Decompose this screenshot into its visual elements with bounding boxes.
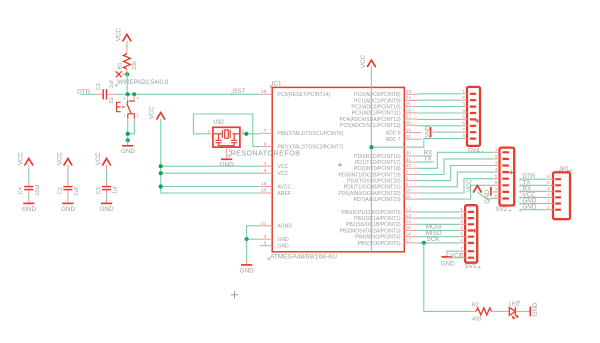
svg-text:PB7(XTAL2/TOSC2/PCINT7): PB7(XTAL2/TOSC2/PCINT7) xyxy=(277,145,343,151)
svg-text:28: 28 xyxy=(406,120,412,126)
svg-text:VCC: VCC xyxy=(18,152,25,166)
IC pin 7 stub (PB6(XTAL1/TOSC1/PCINT6)) xyxy=(260,132,272,134)
capacitor C2 1uf xyxy=(57,187,80,196)
svg-text:PC5(ADC5/SCL/PCINT13): PC5(ADC5/SCL/PCINT13) xyxy=(340,123,401,129)
switch S1 (reset pushbutton) xyxy=(109,95,140,121)
junction VCC rail / SV4 pin 8 branch xyxy=(369,145,373,149)
wire JP1 GND xyxy=(521,203,547,205)
SV1 pin 4 stub xyxy=(459,230,465,232)
SV2 pin 5 stub xyxy=(494,178,500,180)
svg-text:GND: GND xyxy=(100,206,114,213)
IC pin 13 stub (PB1(OC1A/PCINT1)) xyxy=(404,217,417,219)
svg-text:3: 3 xyxy=(123,95,126,100)
svg-text:ADC 6: ADC 6 xyxy=(386,131,401,137)
pin stub C2 pin 1 xyxy=(67,181,69,186)
svg-text:VCC: VCC xyxy=(149,106,156,120)
ground GND under C4 xyxy=(22,198,36,212)
junction VCC rail pin6 xyxy=(159,171,163,175)
JP1 pin 6 stub xyxy=(547,178,553,180)
SV1 pin 6 stub xyxy=(459,242,465,244)
wire to IC AVCC pin 18 xyxy=(161,186,260,188)
wire PDx to SV2 xyxy=(417,152,493,168)
svg-text:AGND: AGND xyxy=(277,224,292,230)
IC pin 1 stub (PD3(INT1/OC2B/PCINT19)) xyxy=(404,174,417,176)
svg-text:RST: RST xyxy=(233,88,246,95)
JP1 pin 5 stub xyxy=(547,184,553,186)
svg-text:10uf: 10uf xyxy=(35,184,41,195)
wire LED to GND xyxy=(519,310,525,312)
wire PCx to SV4 xyxy=(417,99,461,101)
wire diagonal VCC to SV2 pin 8 net xyxy=(477,192,490,200)
wire VCC to C4 xyxy=(28,169,30,181)
svg-text:PB6(XTAL1/TOSC1/PCINT6): PB6(XTAL1/TOSC1/PCINT6) xyxy=(277,131,343,137)
IC pin 16 stub (PB4(MISO/PCINT4)) xyxy=(404,236,417,238)
junction resonator XTAL1 xyxy=(244,132,248,136)
wire to IC VCC pin 6 xyxy=(161,172,260,174)
SV4 pin 8 stub xyxy=(461,138,467,140)
pin stub C3 pin 1 xyxy=(106,181,108,186)
svg-text:C1: C1 xyxy=(96,83,102,90)
svg-text:PB2(SS/OC1B/PCINT2): PB2(SS/OC1B/PCINT2) xyxy=(346,222,401,228)
IC pin 19 stub (ADC 6) xyxy=(404,132,421,134)
pin stub C1 pin 1 xyxy=(95,93,103,95)
svg-text:JP1: JP1 xyxy=(559,166,570,173)
svg-text:PD7(AIN1/PCINT23): PD7(AIN1/PCINT23) xyxy=(354,197,401,203)
svg-text:GND: GND xyxy=(277,244,289,250)
label origin cross SV1 xyxy=(478,266,481,269)
SV2 pin 3 stub xyxy=(494,165,500,167)
LED LED1 xyxy=(506,302,520,319)
svg-text:11: 11 xyxy=(406,194,411,200)
svg-text:GND: GND xyxy=(522,204,536,211)
label origin cross DTR xyxy=(519,178,522,181)
pin stub R2 pin 2 xyxy=(491,310,497,312)
svg-text:5: 5 xyxy=(264,240,267,246)
IC pin 9 stub (PD5(T1/OC0B/PCINT21)) xyxy=(404,186,417,188)
op-amp/IC U1: IC1 ATMEGA48/88/168-AU box xyxy=(270,80,404,260)
wire GND to SV4 pin 7 xyxy=(435,131,461,133)
svg-text:RESONATOREFOB: RESONATOREFOB xyxy=(231,151,301,158)
label origin cross SV2 xyxy=(509,209,512,212)
power symbol VCC above IC xyxy=(360,54,375,68)
svg-text:SV2: SV2 xyxy=(495,206,507,213)
wire VCC to C2 xyxy=(67,169,69,181)
wire PD0 RX stub xyxy=(417,155,432,157)
pin stub R1 pin 2 xyxy=(126,69,128,73)
svg-text:4: 4 xyxy=(137,95,140,100)
svg-text:PC2(ADC2/PCINT10): PC2(ADC2/PCINT10) xyxy=(351,105,401,111)
junction VCC rail AVCC xyxy=(159,184,163,188)
svg-text:8: 8 xyxy=(264,141,267,147)
junction AGND/GND xyxy=(245,237,249,241)
wire JP1 DTR xyxy=(521,178,547,180)
svg-text:PB1(OC1A/PCINT1): PB1(OC1A/PCINT1) xyxy=(354,216,401,222)
power symbol VCC above C4 xyxy=(18,152,33,166)
IC pin 30 stub (PD0(RXD/PCINT16)) xyxy=(404,155,417,157)
SV4 pin 2 stub xyxy=(461,99,467,101)
sheet origin cross xyxy=(231,291,238,298)
svg-text:10: 10 xyxy=(406,188,412,194)
svg-text:1: 1 xyxy=(406,169,409,175)
svg-text:PC6(RESET/PCINT14): PC6(RESET/PCINT14) xyxy=(277,92,330,98)
wire DTR to C1 xyxy=(81,93,96,95)
svg-text:LED: LED xyxy=(509,302,520,308)
IC pin 10 stub (PD6(AIN0/OC0A/PCINT22)) xyxy=(404,192,417,194)
svg-text:C4: C4 xyxy=(18,187,24,194)
ground GND under C3 xyxy=(100,198,114,212)
svg-text:VCC: VCC xyxy=(57,152,64,166)
svg-text:GND: GND xyxy=(61,206,75,213)
IC pin 32 stub (PD2(INT0/PCINT18)) xyxy=(404,167,417,169)
IC pin 12 stub (PB0(ICP1/CLKO/PCINT0)) xyxy=(404,211,417,213)
svg-text:18: 18 xyxy=(261,181,267,187)
pin stub C2 pin 2 xyxy=(67,190,69,195)
svg-text:IC1: IC1 xyxy=(272,80,282,87)
SV4 pin 4 stub xyxy=(461,112,467,114)
ground GND at SV2 pin 7 (rotated) xyxy=(484,187,494,204)
part origin cross IC1 xyxy=(338,163,342,167)
ground GND under resonator xyxy=(220,155,234,169)
wire PDx to SV2 xyxy=(417,179,493,193)
IC pin 6 stub (VCC) xyxy=(260,172,272,174)
label origin cross GND xyxy=(519,202,522,205)
svg-text:GND: GND xyxy=(441,260,455,267)
capacitor C1 .1uf xyxy=(96,80,115,100)
label origin cross GND xyxy=(519,209,522,212)
wire PDx to SV2 xyxy=(417,185,493,199)
wire S1 pin 2 loop to GND net xyxy=(128,121,135,134)
JP1 pin 2 stub xyxy=(547,203,553,205)
connector JP1 6-pin header xyxy=(553,166,570,219)
wire JP1 RX xyxy=(521,190,547,192)
svg-text:.1uf: .1uf xyxy=(113,186,119,196)
ground GND under IC xyxy=(240,259,254,274)
svg-text:VCC: VCC xyxy=(360,54,367,68)
svg-text:GND: GND xyxy=(22,206,36,213)
power symbol VCC above C3 xyxy=(95,152,110,166)
wire PCx to SV4 xyxy=(417,93,461,95)
IC pin 31 stub (PD1(TXD/PCINT17)) xyxy=(404,161,417,163)
JP1 pin 3 stub xyxy=(547,196,553,198)
svg-text:GND: GND xyxy=(277,237,289,243)
wirepad JP? X symbol (WIREPAD2,54/0,9) xyxy=(116,71,169,86)
label origin cross RST xyxy=(230,92,234,96)
svg-text:VCC: VCC xyxy=(466,179,473,193)
svg-text:20: 20 xyxy=(261,188,267,194)
svg-text:R1: R1 xyxy=(118,62,124,69)
junction S1 GND wire xyxy=(126,138,130,142)
wire JP1 VCC xyxy=(521,196,547,198)
svg-text:2: 2 xyxy=(406,175,409,181)
svg-text:SV4: SV4 xyxy=(468,148,480,155)
pin stub R1 pin 1 xyxy=(126,48,128,54)
wire R2 to LED xyxy=(497,310,506,312)
wire S1 pin 1 down xyxy=(127,121,129,140)
svg-text:C2: C2 xyxy=(57,187,63,194)
svg-text:10k: 10k xyxy=(132,61,138,70)
svg-text:VCC: VCC xyxy=(116,28,123,42)
IC pin 18 stub (AVCC) xyxy=(260,186,272,188)
IC pin 29 stub (PC6(RESET/PCINT14)) xyxy=(260,93,272,95)
wire SCK to R2 xyxy=(424,243,471,312)
wire PDx to SV2 xyxy=(417,159,493,175)
label origin cross JP1 xyxy=(569,169,572,172)
svg-text:12: 12 xyxy=(406,207,412,213)
power symbol VCC at SV2 xyxy=(466,179,481,193)
label origin cross TX xyxy=(519,184,522,187)
svg-text:SCK: SCK xyxy=(427,236,441,243)
svg-text:4: 4 xyxy=(264,161,267,167)
label origin cross ATMEGA xyxy=(267,257,271,261)
wire VCC rail to SV4 pin 8 xyxy=(371,139,461,148)
pin stub VCC C4 xyxy=(28,165,30,169)
wire JP1 GND xyxy=(521,209,547,211)
svg-text:PB5(SCK/PCINT5): PB5(SCK/PCINT5) xyxy=(358,241,401,247)
svg-text:21: 21 xyxy=(261,221,267,227)
svg-text:9: 9 xyxy=(406,182,409,188)
IC pin 26 stub (PC3(ADC3/PCINT11)) xyxy=(404,112,417,114)
SV4 pin 5 stub xyxy=(461,118,467,120)
SV1 pin 8 stub xyxy=(459,257,465,259)
pin stub C4 pin 1 xyxy=(28,181,30,186)
junction RST / S1 pin 3 xyxy=(126,92,130,96)
svg-text:GND: GND xyxy=(532,302,539,316)
wire JP1 TX xyxy=(521,184,547,186)
wire PCx to SV4 xyxy=(417,118,461,120)
svg-text:32: 32 xyxy=(406,163,412,169)
svg-text:VCC: VCC xyxy=(450,252,464,259)
svg-text:13: 13 xyxy=(406,213,412,219)
svg-text:C3: C3 xyxy=(96,187,102,194)
svg-text:15: 15 xyxy=(406,225,412,231)
svg-text:PC3(ADC3/PCINT11): PC3(ADC3/PCINT11) xyxy=(352,111,401,117)
SV4 pin 7 stub xyxy=(461,131,467,133)
svg-text:U$2: U$2 xyxy=(213,119,224,125)
wire PBx to SV1 xyxy=(417,242,459,244)
svg-text:PD6(AIN0/OC0A/PCINT22): PD6(AIN0/OC0A/PCINT22) xyxy=(338,191,401,197)
IC pin 22 stub (ADC 7) xyxy=(404,138,421,140)
svg-text:PD5(T1/OC0B/PCINT21): PD5(T1/OC0B/PCINT21) xyxy=(344,185,401,191)
IC pin 20 stub (AREF) xyxy=(260,192,272,194)
svg-text:19: 19 xyxy=(406,127,412,133)
resistor R2 499 xyxy=(472,303,492,323)
junction S1 GND loop xyxy=(126,132,130,136)
JP1 pin 4 stub xyxy=(547,190,553,192)
connector SV2 8-pin header xyxy=(495,148,514,214)
svg-text:WIREPAD2,54/0,9: WIREPAD2,54/0,9 xyxy=(117,79,168,86)
ground GND under C2 xyxy=(61,198,75,212)
SV2 pin 8 stub xyxy=(494,198,500,200)
wire to IC VCC pin 4 xyxy=(161,165,260,167)
pin stub resonator pin 3 xyxy=(240,133,244,135)
svg-text:PC0(ADC0/PCINT8): PC0(ADC0/PCINT8) xyxy=(354,92,401,98)
svg-text:ADC 7: ADC 7 xyxy=(386,137,401,143)
wire to SV2 pin 8 xyxy=(490,198,494,200)
IC pin 17 stub (PB5(SCK/PCINT5)) xyxy=(404,242,417,244)
svg-text:PD0(RXD/PCINT16): PD0(RXD/PCINT16) xyxy=(354,154,401,160)
SV1 pin 7 stub xyxy=(459,250,465,252)
pin stub R2 pin 1 xyxy=(470,310,476,312)
wire VCC to R1 xyxy=(126,41,128,48)
svg-text:TX: TX xyxy=(424,155,433,162)
pin stub resonator pin 2 xyxy=(226,147,228,155)
svg-text:25: 25 xyxy=(406,101,412,107)
capacitor C3 .1uf xyxy=(96,186,119,196)
wire PCx to SV4 xyxy=(417,112,461,114)
wire C4 to GND xyxy=(28,195,30,199)
IC pin 11 stub (PD7(AIN1/PCINT23)) xyxy=(404,198,417,200)
IC pin 28 stub (PC5(ADC5/SCL/PCINT13)) xyxy=(404,124,417,126)
label origin cross VCC xyxy=(519,196,522,199)
power symbol VCC above C2 xyxy=(57,152,72,166)
svg-text:R2: R2 xyxy=(472,303,479,309)
junction SCK node xyxy=(422,241,426,245)
JP1 pin 1 stub xyxy=(547,209,553,211)
pin stub resonator pin 1 xyxy=(209,133,213,135)
svg-text:PD3(INT1/OC2B/PCINT19): PD3(INT1/OC2B/PCINT19) xyxy=(339,172,401,178)
wire VCC rail vertical through IC xyxy=(370,67,372,252)
SV4 pin 3 stub xyxy=(461,106,467,108)
pin stub VCC C2 xyxy=(67,165,69,169)
svg-text:PD1(TXD/PCINT17): PD1(TXD/PCINT17) xyxy=(355,160,401,166)
resistor R1 10k xyxy=(118,54,138,70)
IC pin 24 stub (PC1(ADC1/PCINT9)) xyxy=(404,100,417,102)
svg-text:PD4(T0/XCK/PCINT20): PD4(T0/XCK/PCINT20) xyxy=(347,179,401,185)
connector SV4 8-pin header xyxy=(467,87,480,155)
svg-text:PC4(ADC4/SDA/PCINT12): PC4(ADC4/SDA/PCINT12) xyxy=(339,117,400,123)
ground GND under S1 xyxy=(121,140,135,155)
svg-text:GND: GND xyxy=(484,189,491,203)
svg-text:.1uf: .1uf xyxy=(109,80,115,90)
label origin cross resonator xyxy=(228,154,232,158)
svg-text:1uf: 1uf xyxy=(74,187,80,195)
svg-text:26: 26 xyxy=(406,108,412,114)
pin stub VCC C3 xyxy=(106,165,108,169)
wire PBx to SV1 xyxy=(417,217,459,219)
svg-text:27: 27 xyxy=(406,114,412,120)
IC pin 4 stub (VCC) xyxy=(260,165,272,167)
SV4 pin 1 stub xyxy=(461,93,467,95)
svg-text:GND: GND xyxy=(121,148,135,155)
svg-text:31: 31 xyxy=(406,157,412,163)
svg-text:1: 1 xyxy=(123,113,126,118)
svg-text:AVCC: AVCC xyxy=(277,184,291,190)
ground GND at SV4 pin 7 (rotated) xyxy=(424,125,434,139)
wire C2 to GND xyxy=(67,195,69,199)
IC pin 2 stub (PD4(T0/XCK/PCINT20)) xyxy=(404,180,417,182)
wire RST net to IC xyxy=(115,93,260,95)
junction wirepad / reset net xyxy=(125,72,129,76)
svg-text:GND: GND xyxy=(240,267,254,274)
svg-text:14: 14 xyxy=(406,219,412,225)
SV2 pin 1 stub xyxy=(494,151,500,153)
SV2 pin 6 stub xyxy=(494,184,500,186)
wire PBx to SV1 xyxy=(417,236,459,238)
wire AGND to GND net xyxy=(247,226,260,239)
wire C3 to GND xyxy=(106,195,108,199)
wire PBx to SV1 xyxy=(417,230,459,232)
svg-text:6: 6 xyxy=(264,168,267,174)
svg-text:22: 22 xyxy=(406,134,412,140)
label origin cross LED xyxy=(517,300,520,303)
connector SV1 8-pin header xyxy=(465,205,478,270)
IC pin 3 stub (GND) xyxy=(260,238,272,240)
SV1 pin 2 stub xyxy=(459,217,465,219)
SV4 pin 6 stub xyxy=(461,125,467,127)
label origin cross SV4 xyxy=(481,151,484,154)
SV2 pin 7 stub xyxy=(494,191,500,193)
SV2 pin 4 stub xyxy=(494,171,500,173)
power symbol VCC (IC supply rail) xyxy=(149,106,165,120)
svg-text:GND: GND xyxy=(220,162,234,169)
wire R1 to RST node xyxy=(126,73,128,94)
junction RST / S1 pin 4 xyxy=(132,92,136,96)
junction VCC rail pin4 xyxy=(159,164,163,168)
ground GND after LED (rotated) xyxy=(525,302,540,316)
label origin cross IC1 xyxy=(269,84,273,88)
svg-text:PC1(ADC1/PCINT9): PC1(ADC1/PCINT9) xyxy=(354,98,401,104)
power symbol VCC (reset pull-up) xyxy=(116,28,131,42)
IC pin 27 stub (PC4(ADC4/SDA/PCINT12)) xyxy=(404,118,417,120)
svg-text:AREF: AREF xyxy=(277,191,291,197)
wire PBx to SV1 xyxy=(417,223,459,225)
IC pin 25 stub (PC2(ADC2/PCINT10)) xyxy=(404,106,417,108)
wire GND net down xyxy=(246,239,248,259)
svg-text:VCC: VCC xyxy=(95,152,102,166)
svg-text:3: 3 xyxy=(264,234,267,240)
SV1 pin 1 stub xyxy=(459,211,465,213)
wire resonator pin1 loop to XTAL2 xyxy=(193,114,259,147)
label origin cross wirepad xyxy=(115,83,119,87)
label origin cross VCC SV1 xyxy=(448,256,451,259)
label origin cross RX xyxy=(519,190,522,193)
svg-text:PB3(MOSI/OC2A/PCINT3): PB3(MOSI/OC2A/PCINT3) xyxy=(340,228,401,234)
wire VCC to C3 xyxy=(106,169,108,181)
svg-text:23: 23 xyxy=(406,89,412,95)
wire PCx to SV4 xyxy=(417,106,461,108)
SV1 pin 5 stub xyxy=(459,236,465,238)
svg-text:PD2(INT0/PCINT18): PD2(INT0/PCINT18) xyxy=(354,166,401,172)
svg-text:2: 2 xyxy=(137,113,140,118)
wire PDx to SV2 xyxy=(417,172,493,187)
svg-text:17: 17 xyxy=(406,238,412,244)
wire SV1 pin 8 VCC xyxy=(451,257,460,259)
pin stub C3 pin 2 xyxy=(106,190,108,195)
svg-text:30: 30 xyxy=(406,151,412,157)
svg-text:ATMEGA48/88/168-AU: ATMEGA48/88/168-AU xyxy=(270,253,337,260)
svg-text:VCC: VCC xyxy=(277,164,288,170)
svg-text:29: 29 xyxy=(261,89,267,95)
svg-text:24: 24 xyxy=(406,95,412,101)
IC pin 21 stub (AGND) xyxy=(260,225,272,227)
svg-text:PB4(MISO/PCINT4): PB4(MISO/PCINT4) xyxy=(355,235,401,241)
wire PDx to SV2 xyxy=(417,166,493,181)
wire PBx to SV1 xyxy=(417,211,459,213)
resonator U$2 RESONATOREFOB xyxy=(208,119,301,157)
capacitor C4 10uf xyxy=(18,184,41,195)
svg-text:SV1: SV1 xyxy=(465,263,477,270)
pin stub C4 pin 2 xyxy=(28,190,30,195)
ground GND at SV1 pin 7 xyxy=(441,253,455,267)
wire PCx to SV4 xyxy=(417,125,461,127)
svg-text:VCC: VCC xyxy=(277,171,288,177)
wire PD1 TX stub xyxy=(417,161,434,163)
wire VCC rail vertical / AREF xyxy=(161,119,260,193)
IC pin 23 stub (PC0(ADC0/PCINT8)) xyxy=(404,93,417,95)
svg-text:GND: GND xyxy=(424,125,431,139)
wire SV1 pin 7 to GND xyxy=(447,251,459,253)
svg-text:499: 499 xyxy=(472,316,481,322)
